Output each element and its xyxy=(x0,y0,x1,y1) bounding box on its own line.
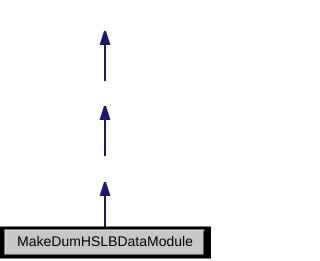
arrow 3 shaft (wire) xyxy=(104,195,106,229)
inheritance diagram for MakeDumHSLBDataModule xyxy=(0,0,211,261)
arrow 1 head xyxy=(100,31,111,45)
node label box bevel top edge xyxy=(5,230,205,231)
node label text xyxy=(18,236,192,246)
arrow 2 shaft (wire) xyxy=(104,119,106,156)
node MakeDumHSLBDataModule: black band xyxy=(0,227,211,259)
arrow 2 head xyxy=(100,106,111,120)
arrow 3 head xyxy=(100,182,111,196)
arrow 1 shaft (wire) xyxy=(104,44,106,81)
node label box gray fill xyxy=(6,231,204,255)
node label box bevel left edge xyxy=(5,230,6,255)
